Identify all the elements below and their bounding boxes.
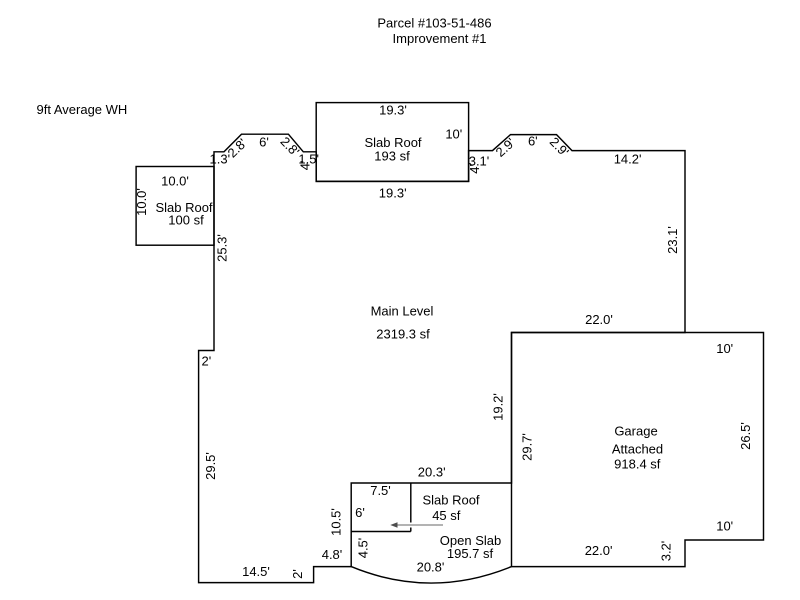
svg-text:10.5': 10.5': [329, 508, 344, 536]
svg-text:29.5': 29.5': [203, 452, 218, 480]
svg-text:7.5': 7.5': [370, 483, 391, 498]
svg-text:Slab Roof: Slab Roof: [422, 493, 479, 508]
svg-text:195.7 sf: 195.7 sf: [447, 546, 494, 561]
svg-text:918.4 sf: 918.4 sf: [614, 457, 661, 472]
svg-text:14.5': 14.5': [242, 564, 270, 579]
svg-text:20.3': 20.3': [418, 465, 446, 480]
svg-text:10.0': 10.0': [161, 174, 189, 189]
svg-text:29.7': 29.7': [520, 433, 535, 461]
slab roof 193 sf box: [316, 103, 468, 182]
svg-text:10': 10': [716, 341, 733, 356]
svg-text:100 sf: 100 sf: [168, 213, 204, 228]
svg-text:25.3': 25.3': [215, 234, 230, 262]
svg-text:6': 6': [259, 135, 269, 150]
svg-text:4.8': 4.8': [322, 547, 343, 562]
svg-text:19.3': 19.3': [379, 186, 407, 201]
slab roof 100 sf box: [136, 167, 214, 246]
svg-text:Main Level: Main Level: [371, 304, 434, 319]
svg-text:22.0': 22.0': [585, 543, 613, 558]
svg-text:193 sf: 193 sf: [374, 149, 410, 164]
svg-text:23.1': 23.1': [665, 226, 680, 254]
svg-text:Attached: Attached: [612, 442, 663, 457]
svg-text:2': 2': [202, 354, 212, 369]
svg-text:4.5': 4.5': [356, 538, 371, 559]
svg-text:2319.3 sf: 2319.3 sf: [376, 327, 430, 342]
svg-text:10.0': 10.0': [134, 188, 149, 216]
open slab curve: [351, 567, 511, 583]
garage outline: [512, 333, 764, 567]
svg-text:26.5': 26.5': [738, 422, 753, 450]
main level outline: [199, 134, 685, 582]
svg-text:3.2': 3.2': [659, 541, 674, 562]
svg-text:Improvement #1: Improvement #1: [393, 31, 487, 46]
svg-text:6': 6': [528, 134, 538, 149]
svg-text:19.2': 19.2': [491, 393, 506, 421]
slab roof 45 sf box right edge: [410, 483, 412, 532]
svg-text:10': 10': [716, 519, 733, 534]
svg-text:45 sf: 45 sf: [432, 508, 461, 523]
svg-text:10': 10': [445, 127, 462, 142]
svg-text:6': 6': [355, 505, 365, 520]
svg-text:19.3': 19.3': [379, 103, 407, 118]
svg-text:22.0': 22.0': [585, 312, 613, 327]
svg-text:9ft Average WH: 9ft Average WH: [37, 102, 128, 117]
svg-text:14.2': 14.2': [614, 152, 642, 167]
svg-text:20.8': 20.8': [417, 560, 445, 575]
svg-text:Garage: Garage: [614, 424, 657, 439]
slab roof 45 sf box bottom edge: [351, 531, 411, 533]
arrow white halo: [391, 523, 443, 528]
svg-text:4': 4': [467, 164, 482, 174]
svg-text:Parcel #103-51-486: Parcel #103-51-486: [377, 16, 491, 31]
svg-text:4': 4': [298, 161, 313, 171]
svg-text:2': 2': [290, 569, 305, 579]
gray arrow shaft: [396, 524, 443, 526]
gray arrow head: [390, 522, 397, 527]
